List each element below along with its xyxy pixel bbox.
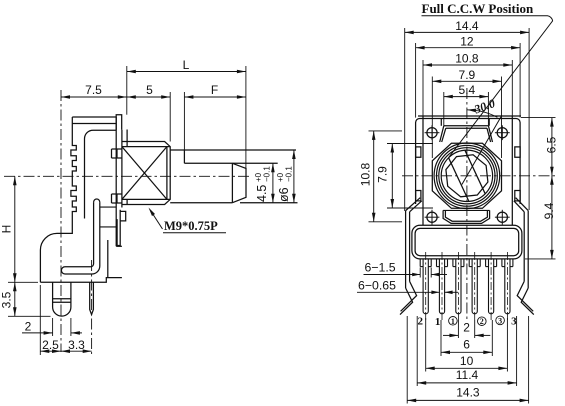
left view: inner cavity outline: [85, 130, 117, 218]
left view: shaft flat line and 4.5 extension: [184, 162, 277, 164]
svg-text:5: 5: [146, 83, 153, 97]
left view: vertical centerline of support peg: [60, 90, 62, 352]
svg-text:7.5: 7.5: [85, 83, 102, 97]
left view: body outline with castellated left edge: [40, 124, 76, 283]
right view: six terminal pins: [419, 259, 421, 267]
left view: body right edge: [115, 117, 117, 246]
dimension 2 (peg width, outside arrows): [22, 332, 53, 334]
left view: terminal block lines: [100, 206, 116, 208]
left view: shaft bottom edge: [170, 202, 232, 204]
right view: mounting wing left: [405, 211, 407, 288]
svg-text:−0.1: −0.1: [263, 166, 272, 182]
svg-text:6−0.65: 6−0.65: [358, 279, 396, 293]
dimension phi6 +0/-0.1 (vertical, rotated text): [293, 150, 295, 203]
dimension 11.4: [416, 316, 418, 386]
left view: thread cross X: [122, 147, 167, 200]
right view: front plate (12 wide): [416, 119, 520, 205]
left view: mounting plate front face: [121, 130, 123, 208]
right view: inner octagon of rotor: [446, 155, 488, 197]
left view: terminal pin below housing: [90, 282, 94, 314]
svg-text:10.8: 10.8: [455, 52, 479, 66]
svg-text:10: 10: [460, 354, 474, 368]
left view: bent terminal strip (J-bend): [94, 199, 100, 202]
right view: horizontal centerline: [402, 175, 558, 177]
dimension 5.4: [444, 96, 489, 98]
svg-text:4.5: 4.5: [255, 185, 269, 202]
svg-text:6: 6: [463, 338, 470, 352]
left view: bushing clip tab upper: [112, 149, 122, 158]
left view: top cap of body: [72, 116, 116, 118]
svg-text:14.3: 14.3: [456, 386, 480, 400]
svg-text:2: 2: [480, 317, 484, 326]
left view: shaft tip chamfer: [232, 163, 246, 202]
right view: bent leg left: [401, 281, 417, 311]
right view: octagonal flange: [432, 143, 501, 208]
right view: screw rivet bottom-right: [497, 212, 507, 222]
dimension 4.5 +0/-0.1 (vertical, rotated text): [272, 163, 274, 202]
svg-text:F: F: [211, 83, 218, 97]
dimension 2.5: [40, 350, 61, 352]
svg-text:2: 2: [417, 316, 423, 328]
right view: top clip plate (5.4 wide): [440, 119, 442, 126]
right view: screw rivet top-right: [497, 128, 507, 138]
svg-text:6−1.5: 6−1.5: [365, 261, 396, 275]
svg-text:7.9: 7.9: [459, 68, 476, 82]
svg-text:Full C.C.W Position: Full C.C.W Position: [422, 1, 534, 16]
dimension 7.9 (top): [432, 80, 501, 82]
dimension 14.4 (top): [405, 31, 529, 33]
left view: vertical centerline of terminal pin: [91, 260, 93, 354]
svg-text:5.4: 5.4: [459, 83, 476, 97]
left view: small step below bushing: [120, 211, 126, 221]
left view: shaft bottom extension line: [240, 202, 298, 204]
dimension 12: [416, 47, 520, 49]
svg-text:3.5: 3.5: [0, 291, 14, 308]
dimension 9.4 (right side): [551, 176, 553, 259]
svg-text:6.5: 6.5: [545, 136, 559, 153]
svg-text:1: 1: [435, 316, 441, 328]
svg-text:11.4: 11.4: [456, 368, 479, 382]
right view: lower housing outer: [412, 225, 522, 259]
dimension L: [127, 71, 246, 73]
dimension H (vertical): [14, 176, 16, 282]
svg-text:1: 1: [451, 317, 455, 326]
svg-text:2: 2: [25, 320, 32, 334]
dimension 7.5 with arrows: [61, 96, 127, 98]
right view: chamfer from plate to mounting wings, left: [406, 198, 421, 211]
right view: side tab lower-left: [416, 191, 421, 201]
right view: screw rivet top-left: [427, 128, 437, 138]
right view: side tab lower-right: [515, 191, 520, 201]
right view: bushing circles: [434, 143, 500, 209]
dimension 10.8 (top): [423, 64, 512, 66]
dimension 5: [127, 96, 170, 98]
left view: horizontal centerline (shaft axis): [4, 175, 250, 177]
right view: slot axis line at 30 degrees: [462, 115, 502, 184]
right view: back body side edges (10.8 wide): [422, 116, 424, 225]
extension lines for top dimensions of left view: [126, 66, 128, 115]
left view: top rear tab: [116, 115, 122, 130]
left view: shaft top edge and phi6 extension: [170, 149, 296, 151]
left view: threaded bushing M9 outline: [122, 142, 170, 205]
pin number label circled 1: [449, 317, 458, 326]
right view: side tab upper-left: [416, 147, 421, 157]
svg-text:ø6: ø6: [277, 187, 291, 202]
svg-text:12: 12: [460, 34, 474, 48]
left view: housing floor bottom edge: [40, 278, 122, 283]
svg-text:M9*0.75P: M9*0.75P: [164, 219, 218, 233]
svg-text:14.4: 14.4: [455, 19, 479, 33]
left view: shaft flat step: [183, 150, 185, 163]
svg-text:2.5: 2.5: [42, 338, 59, 352]
pin number label circled 3: [496, 316, 505, 325]
dimension 6.5 (right side): [551, 118, 553, 176]
dimension 7.9 (left side vertical): [391, 144, 393, 209]
right view: vertical centerline: [466, 88, 468, 322]
left view: inner wall line: [107, 240, 109, 278]
dimension 3.3: [61, 350, 92, 352]
svg-text:L: L: [183, 58, 190, 72]
svg-text:9.4: 9.4: [542, 202, 556, 219]
right view: side tab upper-right: [515, 147, 520, 157]
dimension 2 between pins (outside arrows): [457, 320, 459, 338]
pin number label circled 2: [478, 317, 487, 326]
right view: screw rivet bottom-left: [427, 212, 437, 222]
right view: screwdriver slot at full CCW position (two parallel chords): [449, 158, 469, 202]
left view: rear tab bottom: [116, 245, 122, 247]
extension lines for H / 3.5: [8, 281, 38, 283]
right view: chamfer right: [516, 198, 529, 211]
right view: lower housing inner: [415, 228, 519, 255]
svg-text:10.8: 10.8: [359, 162, 373, 186]
left view: support peg with rounded bottom: [53, 282, 71, 316]
right view: back body top edge: [418, 115, 521, 117]
dimension F: [184, 96, 246, 98]
svg-text:3: 3: [498, 316, 502, 325]
svg-text:7.9: 7.9: [376, 166, 390, 183]
svg-text:2: 2: [463, 321, 470, 335]
svg-text:−0.1: −0.1: [285, 166, 294, 182]
right view: mounting wing right: [527, 211, 529, 288]
dimension 6: [440, 320, 442, 356]
left view: plate lower strip: [117, 210, 120, 246]
right view: bottom clip below flange: [443, 210, 490, 223]
dimension 14.3: [406, 316, 408, 404]
svg-text:H: H: [0, 225, 14, 234]
left view: bushing clip tab lower: [112, 194, 122, 203]
svg-text:3.3: 3.3: [68, 338, 85, 352]
dimension 10.8 (left side vertical): [373, 131, 375, 222]
dimension 3.5 (vertical): [14, 282, 16, 316]
right view: bent leg right: [517, 281, 533, 311]
dimension 10: [425, 318, 427, 372]
angle dimension 30.0 arc with arrow: [467, 110, 498, 118]
